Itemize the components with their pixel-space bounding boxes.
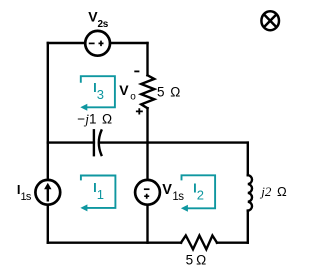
svg-text:−j1Ω: −j1Ω: [77, 112, 112, 127]
svg-text:5 Ω: 5 Ω: [157, 85, 180, 100]
svg-text:5 Ω: 5 Ω: [186, 253, 207, 268]
